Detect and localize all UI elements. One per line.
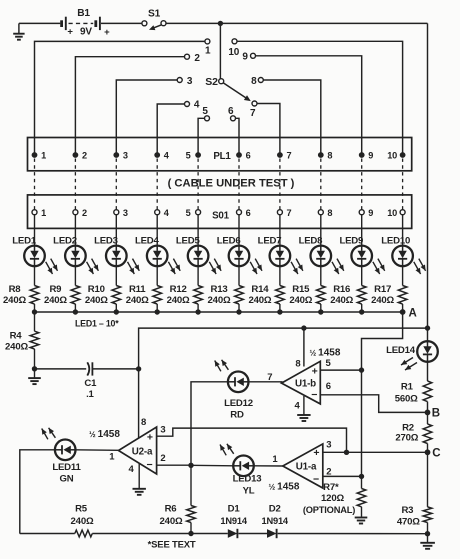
svg-text:240Ω: 240Ω (160, 516, 183, 527)
svg-text:560Ω: 560Ω (395, 393, 418, 404)
S2 contact 3 (177, 76, 193, 87)
svg-text:240Ω: 240Ω (208, 295, 231, 306)
svg-text:( CABLE UNDER TEST ): ( CABLE UNDER TEST ) (168, 178, 295, 190)
svg-text:R7*: R7* (323, 482, 339, 493)
svg-text:7: 7 (287, 208, 292, 218)
svg-text:R15: R15 (292, 284, 310, 295)
wire contact 4 to PL1 pin 4 (157, 104, 184, 155)
resistor R11 240Ω (126, 266, 162, 312)
S2 contact 9 (242, 51, 255, 62)
svg-text:R1: R1 (401, 382, 414, 393)
wire D1 to D2 (239, 533, 268, 535)
svg-text:(OPTIONAL): (OPTIONAL) (303, 505, 355, 515)
wire U1-b output to LED12 (249, 381, 283, 383)
svg-text:8: 8 (327, 208, 332, 218)
svg-text:9: 9 (368, 151, 373, 161)
svg-text:240Ω: 240Ω (371, 295, 394, 306)
junction pin3 branch (344, 450, 349, 455)
svg-text:R6: R6 (165, 503, 177, 514)
wires SO1 pins to LEDs (35, 215, 403, 246)
svg-text:D2: D2 (269, 503, 281, 514)
svg-text:PL1: PL1 (213, 151, 231, 162)
resistor R6 240Ω (160, 465, 196, 533)
label pin 7 (267, 372, 272, 383)
svg-text:+: + (313, 447, 319, 459)
svg-text:1N914: 1N914 (261, 516, 288, 526)
svg-text:LED14: LED14 (386, 345, 416, 356)
LED9 (339, 236, 384, 274)
svg-text:B1: B1 (77, 8, 90, 19)
resistor R10 240Ω (85, 266, 121, 312)
svg-text:S1: S1 (148, 8, 161, 19)
wire +9V rail right side (427, 23, 429, 341)
wire LED bus (32, 309, 403, 328)
svg-text:A: A (408, 307, 416, 319)
wire LED14 to R1 (427, 362, 429, 381)
junction branch/rail (425, 325, 430, 330)
svg-text:+: + (67, 27, 73, 38)
svg-text:−: − (147, 459, 153, 471)
svg-text:2: 2 (160, 453, 165, 464)
svg-text:−: − (311, 389, 317, 401)
resistor R3 470Ω (397, 452, 432, 533)
resistor R7* 120Ω (optional) (303, 476, 366, 516)
svg-text:D1: D1 (228, 503, 241, 514)
junction R6/bottom rail (188, 531, 193, 536)
svg-text:LED12: LED12 (224, 398, 253, 409)
resistor R2 270Ω (395, 412, 431, 452)
op-amp U2-a (89, 417, 165, 475)
rotary switch S2 pole (205, 76, 251, 101)
S2 contact 7 (250, 101, 257, 119)
node A (400, 307, 417, 319)
svg-text:240Ω: 240Ω (44, 295, 67, 306)
svg-text:240Ω: 240Ω (289, 295, 312, 306)
ground (bottom right) (420, 534, 435, 549)
svg-text:1: 1 (205, 46, 211, 57)
resistor R12 240Ω (167, 266, 203, 312)
S2 contact 10 (228, 39, 239, 58)
resistor R14 240Ω (248, 266, 284, 312)
svg-text:R14: R14 (251, 284, 269, 295)
wire contact 10 to PL1 pin 10 (237, 41, 403, 155)
svg-text:270Ω: 270Ω (395, 433, 418, 444)
svg-text:9: 9 (368, 208, 373, 218)
svg-text:RD: RD (230, 410, 244, 421)
LED12 RD (215, 360, 253, 421)
resistor R5 240Ω (71, 503, 94, 537)
svg-text:240Ω: 240Ω (248, 295, 271, 306)
svg-text:5: 5 (186, 208, 191, 218)
ground (R4) (28, 369, 41, 384)
wire U1-a pin 2 (323, 475, 362, 477)
svg-text:½1458: ½1458 (89, 429, 120, 440)
svg-text:½1458: ½1458 (269, 481, 300, 492)
svg-text:2: 2 (194, 53, 200, 64)
svg-text:R12: R12 (170, 284, 187, 295)
wire contact 8 to PL1 pin 8 (263, 80, 321, 155)
wire contact 9 to PL1 pin 9 (256, 56, 362, 155)
svg-text:4: 4 (295, 400, 301, 411)
op-amp U1-b (282, 347, 341, 411)
svg-text:2: 2 (82, 151, 87, 161)
S2 contact 6 (228, 106, 235, 121)
svg-text:C: C (432, 448, 440, 460)
LED13 YL (220, 444, 261, 497)
S2 contact 2 (185, 53, 201, 64)
wire bottom rail left (20, 533, 75, 535)
svg-text:+: + (312, 366, 318, 378)
wire down to S2 pole (219, 23, 221, 78)
svg-text:9: 9 (242, 51, 248, 62)
wire R1 to node B (427, 402, 429, 413)
wire U1-b pin 5 (320, 369, 361, 371)
svg-text:B: B (432, 407, 440, 419)
svg-text:.1: .1 (86, 389, 94, 400)
svg-text:6: 6 (326, 381, 331, 392)
resistor R1 560Ω (395, 381, 432, 404)
junction bottom-right (425, 531, 430, 536)
junction U1-b pin8 feed (301, 325, 306, 330)
svg-text:R9: R9 (49, 284, 61, 295)
svg-text:R13: R13 (211, 284, 228, 295)
svg-text:5: 5 (186, 151, 191, 161)
LED7 (258, 236, 303, 274)
svg-text:−: − (313, 474, 319, 486)
LED4 (135, 236, 180, 274)
wire U1-b pin 8 (303, 328, 305, 366)
svg-text:8: 8 (295, 358, 300, 369)
S2 contact 8 (251, 76, 263, 87)
junction LED12/LED13/R6/pin2 (188, 463, 193, 468)
svg-text:7: 7 (287, 151, 292, 161)
capacitor C1 .1 (35, 362, 139, 400)
svg-text:6: 6 (246, 151, 251, 161)
op-amp U1-a (269, 440, 332, 493)
svg-text:6: 6 (246, 208, 251, 218)
resistor R13 240Ω (208, 266, 244, 312)
wire contact 3 to PL1 pin 3 (116, 80, 177, 155)
wire contact 5 to PL1 pin 5 (198, 118, 204, 155)
svg-text:YL: YL (243, 485, 255, 496)
wire LED12 to junction (191, 382, 228, 466)
S2 contact 1 (205, 39, 211, 57)
wire S1 to +9V rail corner (166, 22, 428, 24)
svg-text:10: 10 (228, 47, 239, 58)
svg-text:U1-b: U1-b (295, 379, 316, 390)
switch S1 (142, 8, 166, 30)
resistor R17 240Ω (371, 266, 407, 312)
wire contact 6 to PL1 pin 6 (236, 118, 240, 155)
svg-text:4: 4 (194, 100, 200, 111)
svg-text:6: 6 (228, 106, 234, 117)
junction C1/branch (136, 366, 141, 371)
svg-text:1: 1 (109, 452, 115, 463)
cable dashed conductors (35, 159, 403, 210)
svg-text:R16: R16 (333, 284, 350, 295)
junction pin5/A-wire (359, 367, 364, 372)
LED5 (176, 236, 221, 274)
svg-text:3: 3 (123, 208, 128, 218)
svg-text:S01: S01 (212, 210, 230, 221)
wire +9V branch to op-amps (139, 328, 428, 438)
svg-text:R8: R8 (9, 284, 22, 295)
junction pin2/A-wire (359, 474, 364, 479)
svg-text:240Ω: 240Ω (167, 295, 190, 306)
LED14 (386, 341, 438, 370)
svg-text:240Ω: 240Ω (71, 516, 94, 527)
label see text (148, 540, 196, 551)
svg-text:8: 8 (327, 151, 332, 161)
svg-text:1: 1 (41, 208, 46, 218)
svg-text:*SEE TEXT: *SEE TEXT (148, 540, 196, 551)
svg-text:LED13: LED13 (233, 474, 262, 485)
LED11 GN (42, 428, 82, 485)
svg-text:10: 10 (387, 151, 397, 161)
svg-text:3: 3 (123, 151, 128, 161)
ground (R7) (355, 518, 368, 524)
svg-text:470Ω: 470Ω (397, 516, 420, 527)
svg-text:R4: R4 (10, 331, 23, 342)
wire U1-b pin 6 to node B (320, 395, 427, 413)
svg-text:1N914: 1N914 (220, 516, 247, 526)
resistor R9 240Ω (44, 266, 80, 312)
wire battery to S1 (101, 22, 142, 24)
svg-text:3: 3 (326, 440, 331, 451)
connector PL1 (28, 138, 412, 171)
svg-text:R11: R11 (129, 284, 146, 295)
wire U2-a pin 2 (157, 464, 191, 466)
svg-text:R10: R10 (88, 284, 105, 295)
node B (425, 407, 440, 419)
svg-text:240Ω: 240Ω (5, 341, 28, 352)
svg-text:LED11: LED11 (52, 462, 81, 473)
svg-text:8: 8 (141, 417, 146, 428)
ground (U2-a pin 4) (133, 463, 146, 495)
svg-text:C1: C1 (84, 378, 97, 389)
svg-text:240Ω: 240Ω (85, 295, 108, 306)
LED2 (53, 236, 98, 274)
resistor R4 240Ω (5, 312, 39, 369)
resistor R8 240Ω (3, 266, 39, 312)
S2 contact 4 (185, 100, 200, 111)
resistor R15 240Ω (289, 266, 325, 312)
svg-text:120Ω: 120Ω (321, 493, 344, 504)
wire U2-a pin 3 to node C line (157, 428, 347, 452)
connector SO1 (28, 195, 412, 229)
wire U2-a output to LED11 (76, 449, 119, 452)
svg-text:GN: GN (60, 473, 74, 484)
resistor R16 240Ω (330, 266, 366, 312)
LED3 (94, 236, 139, 274)
svg-text:240Ω: 240Ω (330, 295, 353, 306)
svg-text:240Ω: 240Ω (126, 295, 149, 306)
S2 contact 5 (202, 106, 209, 121)
battery B1 +9V (62, 8, 111, 38)
wire LED13 to junction (191, 464, 233, 467)
svg-text:R5: R5 (75, 503, 88, 514)
wire D2 to ground node (278, 533, 428, 535)
ground (U1-b pin 4) (297, 396, 310, 421)
svg-text:5: 5 (202, 106, 208, 117)
diode D2 1N914 (261, 503, 288, 538)
svg-text:R17: R17 (374, 284, 391, 295)
LED8 (299, 236, 344, 274)
svg-text:8: 8 (251, 76, 257, 87)
svg-text:U2-a: U2-a (132, 446, 153, 457)
LED10 (381, 236, 425, 274)
junction S2 feed (218, 21, 223, 26)
svg-text:10: 10 (387, 208, 397, 218)
wire contact 7 to PL1 pin 7 (257, 104, 280, 156)
svg-text:3: 3 (160, 424, 165, 435)
svg-text:+: + (104, 27, 110, 38)
svg-text:1: 1 (41, 151, 46, 161)
svg-text:½1458: ½1458 (310, 347, 341, 358)
wire battery negative (19, 22, 60, 24)
svg-text:LED1 – 10*: LED1 – 10* (75, 319, 119, 329)
wire contact 2 to PL1 pin 2 (75, 57, 184, 155)
wire node A to inputs (362, 312, 403, 476)
wire contact 1 to PL1 pin 1 (35, 41, 205, 155)
svg-text:U1-a: U1-a (296, 462, 317, 473)
diode D1 1N914 (220, 503, 247, 538)
svg-text:7: 7 (250, 108, 256, 119)
svg-text:240Ω: 240Ω (3, 295, 26, 306)
LED1 (12, 236, 57, 274)
node C (425, 448, 441, 460)
svg-text:+: + (147, 431, 153, 443)
wire U1-a pin 3 to node C (323, 451, 428, 453)
wire U1-a output to LED13 (254, 465, 283, 467)
label cable under test (168, 178, 295, 190)
svg-text:S2: S2 (205, 76, 218, 88)
ground (battery negative) (13, 23, 24, 39)
svg-text:2: 2 (82, 208, 87, 218)
LED6 (217, 236, 262, 274)
svg-text:9V: 9V (80, 26, 92, 37)
svg-text:R3: R3 (401, 505, 413, 516)
wire LED11 to bottom rail (20, 450, 55, 534)
junction R4/C1/ground (32, 366, 37, 371)
svg-text:3: 3 (187, 76, 193, 87)
wire R5 to D1 (92, 533, 228, 535)
